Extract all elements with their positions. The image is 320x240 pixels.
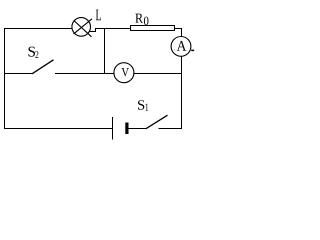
wire: voltmeter to right vertical <box>134 73 182 75</box>
resistor R0 <box>131 26 175 31</box>
wire: middle row left segment <box>4 73 32 75</box>
wire: left vertical branch <box>4 28 6 129</box>
switch S2 blade <box>32 60 54 74</box>
wire: bottom left horizontal to battery <box>4 128 112 130</box>
wire: resistor to top-right corner <box>175 28 183 30</box>
wire: top left horizontal to lamp <box>4 28 73 30</box>
wire: small step up <box>95 28 97 32</box>
label R0 <box>135 14 148 26</box>
wire: middle row to voltmeter <box>55 73 114 75</box>
wire: switch S1 to bottom-right corner <box>159 128 183 130</box>
wire: down to ammeter top <box>181 28 183 37</box>
wire: top horizontal lamp to resistor <box>96 28 131 30</box>
wire: junction vertical to voltmeter row <box>104 29 106 75</box>
label S2 <box>29 47 39 58</box>
wire: battery to switch S1 <box>129 128 147 130</box>
wire: stub exiting lamp right, below centre <box>89 30 95 32</box>
artifact tick on ammeter right edge <box>191 49 194 51</box>
battery negative plate (short thick) <box>125 123 128 135</box>
wire: right vertical ammeter to bottom <box>181 56 183 129</box>
artifact dot inside ammeter left edge <box>174 49 175 50</box>
ammeter A <box>171 37 191 57</box>
voltmeter V <box>114 63 134 83</box>
switch S1 blade <box>146 115 168 129</box>
lamp L <box>72 18 92 37</box>
label L <box>96 10 101 21</box>
label S1 <box>138 100 148 111</box>
battery positive plate (long thin) <box>111 117 113 140</box>
